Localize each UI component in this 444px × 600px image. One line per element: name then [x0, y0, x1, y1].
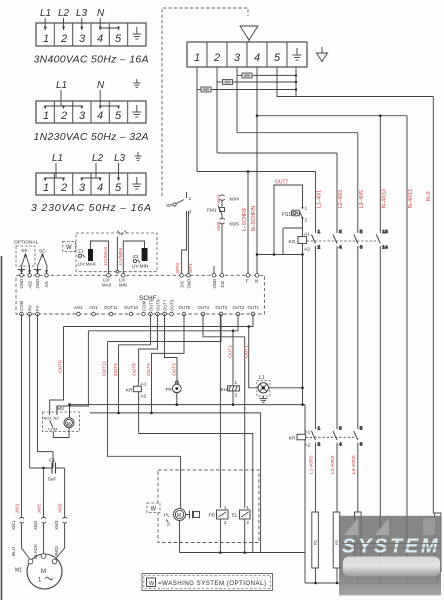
wire L1 feed — [197, 171, 316, 173]
wire OUT9 branch — [119, 314, 151, 413]
svg-text:SYSTEM: SYSTEM — [342, 536, 439, 558]
svg-text:5uF: 5uF — [48, 477, 56, 483]
level electrode Z1 — [78, 241, 109, 274]
wire terminal1 L1 drop — [196, 67, 198, 172]
svg-text:4: 4 — [339, 245, 342, 251]
svg-text:1N230VAC 50Hz – 32A: 1N230VAC 50Hz – 32A — [34, 131, 149, 143]
svg-text:Z1: Z1 — [78, 249, 84, 255]
svg-text:EL: EL — [232, 513, 238, 519]
svg-text:RED: RED — [54, 546, 59, 556]
svg-text:LIV/MAX: LIV/MAX — [103, 246, 109, 266]
link KR coil contacts — [306, 436, 354, 438]
svg-text:X6/4: X6/4 — [229, 197, 239, 203]
svg-text:3N400VAC 50Hz – 16A: 3N400VAC 50Hz – 16A — [34, 54, 149, 66]
wire RV to capacitor — [29, 314, 31, 468]
svg-text:OUT1: OUT1 — [248, 305, 260, 310]
svg-text:OUT6: OUT6 — [58, 360, 64, 373]
svg-text:2: 2 — [60, 182, 67, 194]
wire OUT5 branch — [152, 314, 185, 413]
svg-text:MAX: MAX — [102, 283, 111, 288]
connector X6/1 — [11, 517, 24, 530]
svg-text:N–S: N–S — [426, 191, 432, 201]
wire OUT8 to KR coil — [139, 314, 158, 385]
svg-text:OUT2: OUT2 — [233, 305, 245, 310]
svg-text:OUT4: OUT4 — [198, 305, 210, 310]
wire L1-40/1 rail upper — [315, 172, 317, 234]
ground symbol label block2 — [133, 79, 140, 87]
heater R3 — [355, 512, 362, 583]
svg-text:R2: R2 — [334, 539, 339, 545]
wire RED to motor — [55, 523, 65, 560]
svg-text:KR: KR — [289, 436, 296, 442]
svg-text:X6/4: X6/4 — [216, 194, 221, 204]
svg-text:OUT11: OUT11 — [102, 361, 108, 376]
svg-text:A2: A2 — [304, 247, 310, 253]
wire N distribution — [257, 115, 407, 117]
svg-text:1: 1 — [43, 110, 49, 122]
svg-text:SS: SS — [21, 248, 27, 254]
wire FV drop — [38, 314, 54, 468]
svg-text:1: 1 — [305, 206, 308, 212]
svg-text:AI1: AI1 — [44, 280, 49, 287]
fuse FN3 — [237, 73, 252, 78]
svg-text:OUT10: OUT10 — [124, 305, 138, 310]
junction EU feed — [232, 330, 235, 333]
contactor KR contact 5-6 — [354, 426, 363, 513]
terminal block X1 (3N400VAC) — [36, 23, 146, 46]
heater R2 — [333, 512, 340, 583]
svg-text:NO1: NO1 — [44, 416, 53, 421]
svg-text:SP/3: SP/3 — [175, 263, 180, 273]
contactor KG contact 3-4 — [333, 229, 342, 429]
svg-text:M: M — [177, 513, 181, 519]
svg-text:L2–KR/4: L2–KR/4 — [330, 455, 336, 474]
svg-text:4: 4 — [254, 52, 260, 64]
svg-text:N: N — [255, 279, 258, 284]
junction heater bus — [314, 582, 317, 585]
wire MV loop — [53, 405, 69, 438]
svg-text:GND: GND — [187, 279, 192, 289]
svg-text:4: 4 — [97, 33, 103, 45]
wire L3 feed — [237, 132, 358, 134]
wire KG A2 to N — [257, 254, 303, 256]
relay coil KR heaters — [289, 405, 311, 553]
ground symbol block3 cell — [132, 177, 141, 189]
wire FN1 output — [211, 89, 296, 91]
svg-text:L2–40/3: L2–40/3 — [338, 190, 344, 208]
svg-text:3 230VAC 50Hz – 16A: 3 230VAC 50Hz – 16A — [31, 202, 151, 214]
ground symbol label block3 — [135, 152, 142, 160]
svg-text:M: M — [41, 569, 46, 575]
terminal block X2 (main input) — [187, 42, 307, 67]
svg-text:2: 2 — [60, 33, 67, 45]
contactor KR contact 1-2 — [312, 426, 321, 513]
svg-text:L3: L3 — [114, 153, 126, 164]
relay coil KR — [126, 382, 147, 434]
svg-text:L3: L3 — [76, 8, 88, 19]
svg-text:LIV.MAX: LIV.MAX — [78, 262, 97, 268]
contactor FR — [166, 381, 182, 405]
svg-text:X6/2: X6/2 — [33, 520, 38, 530]
wire L3-40/5 rail upper — [357, 133, 359, 233]
svg-text:X6/3: X6/3 — [58, 503, 63, 513]
junction N t4 — [256, 114, 259, 117]
supply entry triangle — [240, 26, 258, 42]
wire BLU — [43, 468, 45, 518]
wire OUT7 to FR — [165, 314, 178, 384]
svg-text:N: N — [97, 80, 105, 91]
svg-text:LIV/MIN: LIV/MIN — [118, 248, 124, 266]
svg-text:OUT5: OUT5 — [179, 305, 191, 310]
wire FN3 output — [252, 74, 296, 76]
svg-text:LIV.MIN: LIV.MIN — [132, 264, 149, 270]
svg-text:3: 3 — [79, 33, 86, 45]
svg-text:2: 2 — [305, 218, 308, 224]
wire L2-40/3 rail upper — [336, 153, 338, 233]
svg-text:A1: A1 — [304, 232, 310, 238]
svg-text:L1: L1 — [56, 80, 67, 91]
svg-text:EU: EU — [221, 387, 228, 393]
ground symbol lamp — [259, 396, 267, 402]
svg-text:L1: L1 — [259, 375, 265, 381]
SCHF bottom terminal labels — [19, 299, 259, 311]
junction OUT7 loop — [273, 253, 276, 256]
junction FR bus — [176, 403, 179, 406]
svg-text:L3–KR/6: L3–KR/6 — [351, 455, 357, 474]
svg-text:N–SCHF/N: N–SCHF/N — [251, 206, 257, 231]
wire terminal5 to N-S rail — [277, 67, 433, 97]
level electrode Z2 — [123, 241, 149, 274]
svg-text:6: 6 — [360, 245, 363, 251]
svg-text:X6/2: X6/2 — [37, 503, 42, 513]
svg-text:KR: KR — [126, 388, 133, 394]
svg-text:2: 2 — [318, 245, 321, 251]
svg-text:5: 5 — [274, 52, 281, 64]
caption box — [142, 574, 273, 591]
box W washing — [147, 503, 160, 513]
svg-text:OUT11: OUT11 — [104, 305, 118, 310]
motor M1 — [15, 554, 62, 589]
heater S — [433, 513, 441, 583]
svg-text:1: 1 — [235, 380, 238, 386]
junction PD return — [219, 551, 222, 554]
contactor KR contact 3-4 — [333, 426, 342, 513]
svg-text:5: 5 — [360, 426, 363, 432]
wire SP to SCHF DI — [182, 211, 189, 274]
pressure switch PD — [209, 505, 229, 525]
terminal block X1 (1N230VAC) — [36, 101, 146, 123]
pump PL — [164, 509, 186, 527]
wire OUT6 drop to MV — [50, 327, 64, 416]
wire terminal2 L2 drop — [216, 67, 218, 153]
svg-text:N–40/13: N–40/13 — [381, 189, 387, 208]
svg-text:PL: PL — [164, 513, 170, 519]
dashed optional boundary — [162, 8, 248, 196]
board SCHF outline — [16, 275, 264, 314]
svg-text:2: 2 — [235, 393, 238, 399]
wire EU drop — [232, 331, 234, 385]
sensor SC — [38, 249, 48, 267]
fuse FN2 — [217, 80, 233, 85]
svg-text:GND: GND — [19, 279, 24, 289]
svg-text:M1: M1 — [15, 568, 22, 574]
svg-text:L–SCHF/F: L–SCHF/F — [242, 207, 248, 231]
wire lamp to KG return — [269, 387, 303, 389]
wire OUT3 to PD — [219, 314, 221, 508]
wire washing return bus — [180, 552, 306, 554]
svg-text:L2: L2 — [58, 8, 70, 19]
wire N-40/13 rail B — [406, 116, 408, 583]
svg-text:1: 1 — [318, 229, 321, 235]
junction EL return — [243, 551, 246, 554]
svg-text:1: 1 — [318, 426, 321, 432]
heater R1 — [312, 512, 319, 583]
SCHF top terminals — [20, 274, 259, 278]
contactor KG contact 5-6 — [354, 229, 363, 429]
svg-text:W: W — [151, 507, 157, 513]
svg-text:L1–40/1: L1–40/1 — [317, 190, 323, 208]
svg-text:X6/5: X6/5 — [216, 221, 221, 231]
switch SP — [166, 192, 192, 216]
svg-text:OUT8: OUT8 — [132, 363, 138, 376]
wire OUT7 loop — [274, 185, 303, 255]
wire pump feed — [108, 342, 181, 509]
svg-text:Z2: Z2 — [133, 254, 139, 260]
svg-text:=WASHING SYSTEM (OPTIONAL): =WASHING SYSTEM (OPTIONAL) — [158, 580, 266, 587]
svg-text:OUT7: OUT7 — [162, 299, 167, 311]
svg-text:SP: SP — [166, 203, 172, 209]
svg-text:A1: A1 — [141, 382, 147, 388]
wire KR A2 bus — [139, 434, 253, 553]
svg-text:NC: NC — [54, 416, 60, 421]
junction EU bus — [232, 403, 235, 406]
junction lamp feed — [247, 325, 250, 328]
wire bus B — [90, 413, 261, 553]
svg-text:R1: R1 — [313, 539, 318, 545]
wires SS SC to SCHF — [18, 266, 49, 274]
capacitor CP — [186, 511, 200, 519]
svg-text:3: 3 — [79, 182, 86, 194]
bridge wires block2 — [44, 90, 121, 109]
junction OUT5 end — [150, 412, 153, 415]
junction KG A2 — [301, 253, 304, 256]
svg-text:A2: A2 — [141, 394, 147, 400]
svg-text:OUT5: OUT5 — [146, 363, 152, 376]
svg-text:FM1: FM1 — [207, 208, 217, 214]
washing system box — [158, 470, 259, 543]
svg-text:COM: COM — [48, 427, 57, 432]
junction N rail A — [379, 114, 382, 117]
svg-text:AO2: AO2 — [74, 305, 83, 310]
svg-text:1: 1 — [189, 196, 192, 202]
svg-text:DI2: DI2 — [220, 280, 225, 287]
svg-text:N: N — [97, 8, 105, 19]
svg-text:X6/1: X6/1 — [11, 520, 16, 530]
wires L1-N into block 1 — [44, 18, 121, 30]
capacitor C1 — [30, 458, 65, 483]
wire OUT2 branch — [88, 314, 238, 331]
link KG coil contacts — [307, 240, 378, 242]
junction MV bus — [68, 403, 71, 406]
svg-text:3: 3 — [234, 52, 241, 64]
ground symbol block X2 — [293, 48, 302, 60]
box W upper — [63, 241, 76, 251]
heater EU — [221, 380, 240, 405]
wire neutral bus mid — [70, 404, 306, 406]
wire KG return down — [302, 255, 304, 405]
svg-text:OUT3: OUT3 — [172, 363, 178, 376]
svg-text:3: 3 — [339, 426, 342, 432]
junction PE-FN — [295, 74, 297, 91]
svg-text:OUT9: OUT9 — [148, 299, 153, 311]
wire PE drop — [295, 67, 297, 97]
wire pump return — [179, 521, 181, 553]
SCHF bottom terminals — [20, 312, 255, 316]
svg-text:OUT3: OUT3 — [216, 305, 228, 310]
wire riser washing to heater bus — [304, 553, 306, 584]
svg-text:6: 6 — [360, 442, 363, 448]
wire L2 feed — [217, 152, 337, 154]
junction black wire cap — [42, 467, 45, 470]
wire RED — [64, 468, 66, 518]
valve MV — [43, 406, 80, 432]
svg-text:M: M — [67, 421, 71, 426]
lamp L1 — [257, 375, 270, 396]
solenoid EL — [232, 505, 250, 525]
fuse FN1 — [197, 87, 211, 92]
wire FM1 to SCHF DI2 — [214, 224, 222, 274]
wire OUT1 branch — [64, 314, 254, 327]
svg-text:5: 5 — [360, 229, 363, 235]
contactor KG contact 1-2 — [312, 229, 321, 429]
wire terminal4 N drop to SCHF — [256, 67, 258, 274]
svg-text:OPTIONAL: OPTIONAL — [14, 240, 39, 246]
bridge wires block3 — [44, 163, 121, 181]
terminal block X1 (3 230VAC) — [36, 173, 146, 195]
wire BLACK to motor — [43, 523, 45, 554]
junction KR A1 — [301, 403, 304, 406]
connector X6/5 — [220, 215, 240, 228]
junction lamp return — [301, 387, 304, 390]
svg-text:2: 2 — [318, 442, 321, 448]
svg-text:RV: RV — [27, 305, 32, 311]
wire lamp feed — [249, 327, 259, 388]
svg-text:A02: A02 — [27, 280, 32, 288]
svg-text:1: 1 — [43, 182, 49, 194]
svg-text:DI1: DI1 — [179, 280, 184, 287]
svg-text:13: 13 — [382, 229, 388, 235]
ground symbol block1 — [132, 27, 141, 39]
svg-text:GND: GND — [35, 279, 40, 289]
svg-text:BLU: BLU — [11, 547, 16, 556]
junction L1 feed to SCHF F — [247, 170, 250, 173]
svg-text:m: m — [120, 232, 124, 237]
relay coil KG — [289, 232, 311, 255]
svg-text:L1: L1 — [40, 8, 51, 19]
wire heater bottom bus — [305, 582, 438, 584]
svg-text:SP/1: SP/1 — [188, 263, 193, 273]
svg-text:OUT6: OUT6 — [169, 299, 174, 311]
level sensors box — [76, 233, 157, 272]
junction KG-N — [256, 253, 259, 256]
SCHF top terminal labels — [19, 278, 258, 289]
svg-text:PD: PD — [209, 513, 216, 519]
svg-text:1: 1 — [194, 52, 200, 64]
svg-text:5: 5 — [115, 110, 122, 122]
svg-text:F: F — [246, 279, 249, 284]
svg-text:4: 4 — [97, 110, 103, 122]
svg-text:COM: COM — [19, 301, 24, 311]
svg-text:3: 3 — [189, 210, 192, 216]
svg-text:OUT9: OUT9 — [113, 363, 119, 376]
svg-text:2: 2 — [213, 52, 220, 64]
svg-text:1: 1 — [43, 33, 49, 45]
junction OUT9 end — [117, 412, 120, 415]
svg-text:L2: L2 — [92, 153, 104, 164]
svg-text:3: 3 — [79, 110, 86, 122]
svg-text:N–40/13: N–40/13 — [408, 189, 414, 208]
wire EL return — [244, 519, 246, 553]
scan edge artifact — [1, 256, 3, 600]
svg-text:KG: KG — [289, 239, 296, 245]
svg-text:AO1: AO1 — [89, 305, 98, 310]
probe m — [116, 231, 127, 274]
wire OUT11 branch — [108, 314, 222, 342]
wire COM to motor — [21, 314, 23, 518]
svg-text:14: 14 — [382, 245, 388, 251]
wire L-SCHF/F — [247, 172, 249, 274]
connector X6/3 — [54, 517, 67, 530]
wire OUT10 drop to MV — [57, 331, 89, 415]
svg-text:W: W — [66, 245, 72, 251]
svg-text:X6/5: X6/5 — [229, 222, 239, 228]
wire PD return — [219, 519, 221, 553]
svg-text:2: 2 — [60, 110, 67, 122]
svg-text:GND: GND — [212, 279, 217, 289]
contactor KG contact 13-14 — [376, 229, 388, 583]
svg-text:X6/3: X6/3 — [54, 520, 59, 530]
wire OUT4 to EL — [203, 314, 245, 508]
connector X6/4 — [220, 195, 240, 203]
wire FN2 output — [233, 81, 297, 83]
wire N-40/13 rail A — [379, 116, 381, 233]
svg-text:FV: FV — [35, 305, 40, 311]
svg-text:MIN: MIN — [119, 283, 127, 288]
svg-text:5: 5 — [115, 182, 122, 194]
ground symbol block2 cell — [132, 105, 141, 117]
svg-text:COM: COM — [141, 301, 146, 311]
sensor SS — [16, 246, 35, 266]
svg-text:L3–40/5: L3–40/5 — [359, 190, 365, 208]
svg-text:4: 4 — [339, 442, 342, 448]
thermal contact FM1 — [207, 200, 225, 215]
svg-text:L1–KR/2: L1–KR/2 — [309, 455, 315, 474]
wire BLU to motor — [22, 523, 31, 560]
wire terminal3 L3 drop — [236, 67, 238, 133]
svg-text:3: 3 — [339, 229, 342, 235]
thermostat FS1 — [282, 206, 308, 224]
svg-text:X6/1: X6/1 — [15, 503, 20, 513]
svg-text:MV: MV — [57, 406, 65, 412]
svg-text:4: 4 — [97, 182, 103, 194]
svg-text:FR: FR — [166, 387, 173, 393]
chassis ground symbol — [317, 47, 328, 62]
wire N-S rail — [432, 97, 434, 514]
connector X6/2 — [33, 517, 46, 530]
svg-text:OUT8: OUT8 — [155, 299, 160, 311]
watermark SYSTEM — [339, 516, 441, 596]
svg-text:L1: L1 — [52, 153, 63, 164]
